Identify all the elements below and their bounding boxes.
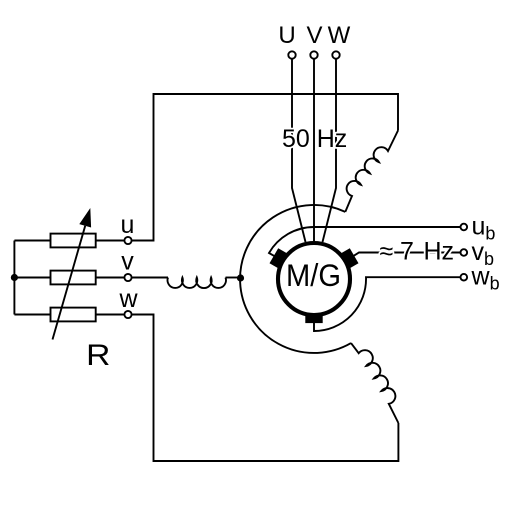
terminal u xyxy=(124,237,131,244)
motor/generator M/G stator circle xyxy=(278,243,350,315)
wire: resistor row w to terminal w xyxy=(96,314,125,316)
resistor R (row u) xyxy=(51,234,96,248)
arrow: variable resistor adjustment arrow xyxy=(53,226,86,340)
wire: phase W feed xyxy=(323,59,337,242)
terminal U xyxy=(288,51,295,58)
wire: phase U feed xyxy=(292,59,306,242)
terminal wb xyxy=(461,274,468,281)
brush B1 at 150 deg xyxy=(270,248,287,268)
svg-text:W: W xyxy=(328,22,351,49)
wire: left bus connecting the three resistors xyxy=(14,241,50,315)
wire: resistor row u to terminal u xyxy=(96,240,125,242)
inductor L3 (choke in rotor lead v) xyxy=(168,278,226,289)
terminal ub xyxy=(461,224,468,231)
svg-text:V: V xyxy=(306,22,322,49)
node: junction of v lead with stator arc xyxy=(237,274,244,281)
wire: brush B2 lead to terminal vb xyxy=(350,253,461,259)
wire: bottom rail from winding back to terminal w xyxy=(132,315,399,462)
wire: stator winding arc around machine xyxy=(240,205,351,353)
wire: terminal u up to top rail across to right side xyxy=(132,94,398,241)
terminal w xyxy=(124,311,131,318)
terminal W xyxy=(332,51,339,58)
wire: terminal v to choke xyxy=(132,277,168,279)
svg-text:U: U xyxy=(278,22,295,49)
terminal V xyxy=(310,51,317,58)
brush B2 at 30 deg xyxy=(341,248,358,268)
svg-text:M/G: M/G xyxy=(286,258,341,293)
wire: brush B3 lead around the bottom to terminal wb xyxy=(314,277,461,331)
svg-text:50 Hz: 50 Hz xyxy=(282,125,347,153)
brush B3 at 270 deg xyxy=(305,313,322,323)
wire: resistor row v to terminal v xyxy=(96,277,125,279)
resistor R (row w) xyxy=(51,308,96,322)
svg-text:v: v xyxy=(121,248,134,276)
resistor R (row v) xyxy=(51,271,96,285)
inductor L1 (top-right winding) xyxy=(345,131,398,212)
wire: phase V feed xyxy=(313,59,315,241)
svg-text:R: R xyxy=(86,338,110,372)
svg-text:u: u xyxy=(121,211,135,239)
terminal vb xyxy=(461,249,468,256)
inductor L2 (bottom-right winding) xyxy=(351,343,398,423)
wire: choke to stator arc junction xyxy=(226,277,241,279)
terminal v xyxy=(124,274,131,281)
svg-text:w: w xyxy=(118,285,138,313)
node: bus junction at row v xyxy=(11,274,18,281)
wire: brush B1 lead over the top to terminal ub xyxy=(269,227,461,258)
